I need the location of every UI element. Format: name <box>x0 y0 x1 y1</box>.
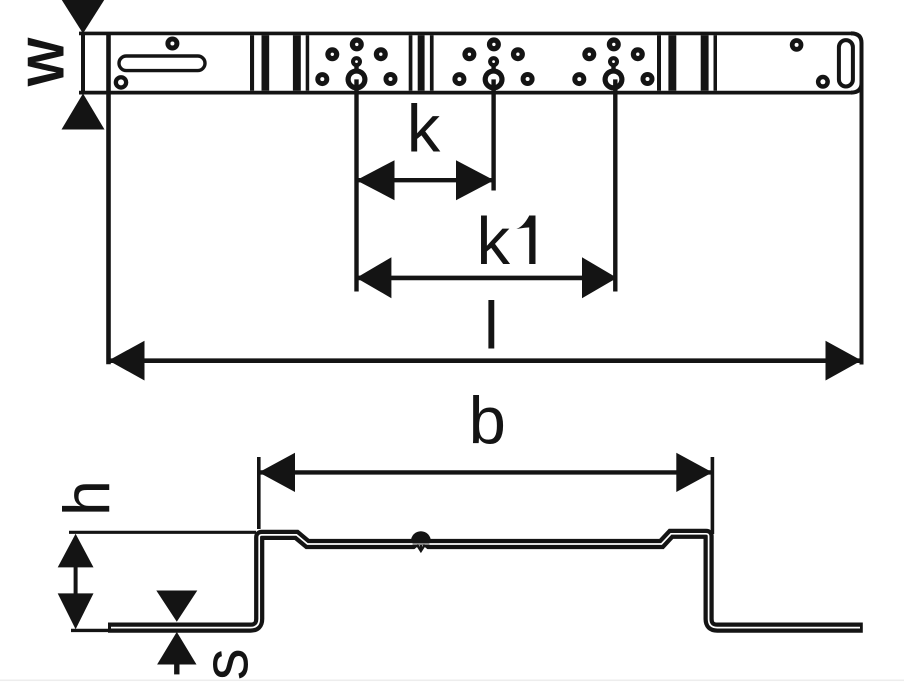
dimension k: left arrow <box>356 160 394 200</box>
rail top view: top edge <box>79 32 853 36</box>
dimension k: line <box>356 178 494 182</box>
rail right bottom rounded corner <box>851 83 862 93</box>
dimension W: top arrow <box>58 0 108 34</box>
dimension b: right arrow <box>676 453 712 492</box>
dimension h: down arrow <box>58 593 94 629</box>
dimension h: top extension line <box>69 531 256 534</box>
right end vertical slot <box>839 40 853 86</box>
dimension W: vertical line <box>81 33 85 93</box>
bar group G3 <box>409 35 413 90</box>
bar group G2 <box>293 35 301 90</box>
dimension h: up arrow <box>58 534 94 568</box>
dimension k1: line <box>356 276 617 281</box>
dimension l: right arrow <box>826 341 862 381</box>
faint bottom border artifact <box>0 680 904 682</box>
hat profile cross-section: sheet (double contour) <box>108 534 863 628</box>
svg-text:b: b <box>469 384 506 459</box>
svg-text:s: s <box>189 648 261 680</box>
bar group G4 <box>657 35 661 90</box>
dimension k: right arrow <box>456 160 494 200</box>
hole cluster 3 <box>572 37 654 291</box>
dimension k1: left arrow <box>356 257 391 298</box>
dimension b: line <box>259 470 713 474</box>
dimension b: left extension line <box>257 457 261 529</box>
dimension s: upper arrow (apex down) <box>156 591 197 622</box>
dimension W: bottom arrow <box>62 94 105 130</box>
dimension h: shaft <box>74 565 78 596</box>
hole cluster 1 <box>315 37 397 291</box>
dimension b: right extension line <box>711 457 715 534</box>
bar group G1 <box>250 35 254 90</box>
dimension k1: right arrow <box>582 257 617 298</box>
dimension b: left arrow <box>259 453 295 492</box>
svg-text:W: W <box>18 36 76 86</box>
hat profile: center bump <box>411 531 431 542</box>
dimension s: tail <box>174 663 179 674</box>
bar group G5 <box>701 35 709 90</box>
dimension s: lower arrow (apex up) <box>157 632 196 665</box>
svg-text:l: l <box>484 288 499 363</box>
left end hole above slot <box>165 37 179 51</box>
svg-text:k: k <box>477 204 511 279</box>
dimension l: left arrow <box>109 341 145 381</box>
dimension h: bottom extension line <box>71 629 112 632</box>
rail left edge + extension line for l <box>106 33 111 364</box>
rail right rounded end + extension line for l <box>851 33 862 364</box>
right end hole bottom <box>816 75 830 89</box>
left end slot <box>119 56 205 71</box>
dimension l: line <box>109 358 862 363</box>
right end hole top <box>790 38 804 52</box>
svg-text:k: k <box>407 91 441 166</box>
rail top view: bottom edge <box>79 91 853 95</box>
left end hole below slot <box>114 75 129 90</box>
svg-text:h: h <box>50 480 123 516</box>
hole cluster 2 <box>452 37 534 190</box>
